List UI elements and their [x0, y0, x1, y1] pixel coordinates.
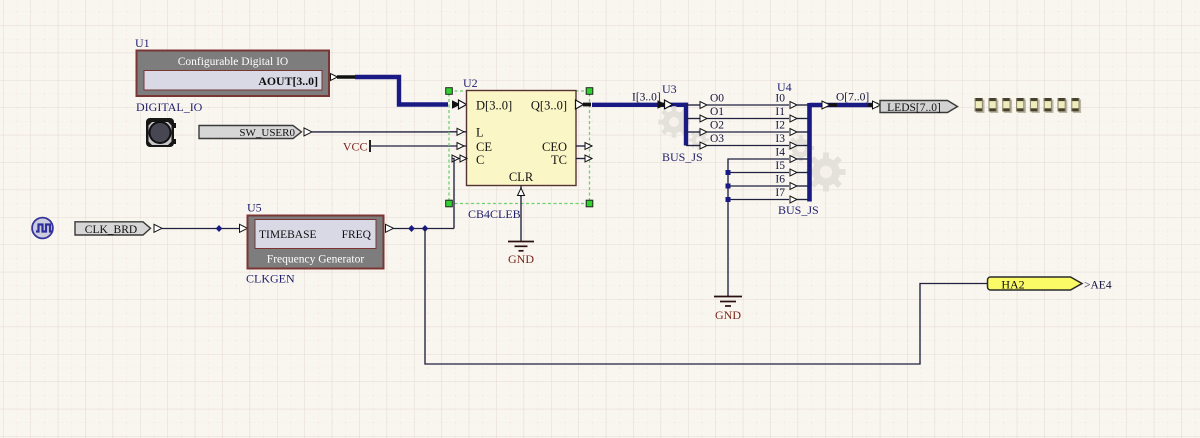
- svg-text:I3: I3: [775, 133, 785, 145]
- svg-text:BUS_JS: BUS_JS: [662, 150, 703, 164]
- svg-text:I4: I4: [775, 147, 785, 159]
- wire I7 branch: [728, 199, 789, 201]
- bus pin arrows at U3 input: [658, 100, 673, 109]
- svg-text:CLR: CLR: [509, 170, 534, 184]
- LED 5: [1030, 98, 1040, 113]
- wire O1 to I1: [707, 118, 789, 120]
- junction I7: [726, 197, 731, 202]
- svg-text:C: C: [476, 153, 484, 167]
- svg-text:FREQ: FREQ: [342, 229, 372, 241]
- wire CLR to GND: [520, 196, 522, 242]
- junction diamond freq b: [422, 225, 429, 232]
- wire O3 to I3: [707, 145, 789, 147]
- svg-text:DIGITAL_IO: DIGITAL_IO: [136, 100, 203, 114]
- connector SW_USER0: [199, 126, 312, 140]
- gear watermark U3 b: [689, 130, 709, 150]
- svg-text:U2: U2: [463, 76, 478, 90]
- gear watermark U4 a: [788, 135, 814, 161]
- LED 2: [989, 98, 999, 113]
- svg-text:I2: I2: [775, 120, 785, 132]
- svg-text:GND: GND: [715, 308, 741, 322]
- connector CLK_BRD: [75, 222, 162, 236]
- connector LEDS[7..0]: [880, 101, 958, 115]
- svg-text:O3: O3: [710, 133, 724, 145]
- pin U5 FREQ output: [386, 224, 394, 232]
- svg-text:I5: I5: [775, 160, 785, 172]
- junction I6: [726, 184, 731, 189]
- svg-text:I6: I6: [775, 174, 785, 186]
- svg-text:U5: U5: [247, 201, 262, 215]
- wire CLK_BRD to U5: [161, 228, 240, 230]
- bus wire Q U2 to U3: [592, 103, 686, 107]
- pin U4 I0: [775, 93, 808, 109]
- wire clock up to U2 C: [452, 159, 454, 229]
- wire O2 to I2: [707, 131, 789, 133]
- svg-text:Frequency Generator: Frequency Generator: [267, 254, 365, 266]
- pin U2 CLR: [518, 186, 525, 198]
- pin U4 I5: [775, 160, 808, 176]
- bus arrows before LEDS: [868, 101, 881, 109]
- svg-text:L: L: [476, 126, 484, 140]
- svg-text:U3: U3: [662, 82, 677, 96]
- pin U2 L: [450, 128, 467, 135]
- wire FREQ to corner: [393, 228, 454, 230]
- bus pin arrows at U2 D input: [453, 100, 467, 109]
- svg-text:CLKGEN: CLKGEN: [246, 272, 295, 286]
- svg-text:BUS_JS: BUS_JS: [778, 203, 819, 217]
- svg-text:SW_USER0: SW_USER0: [239, 127, 295, 139]
- svg-text:>AE4: >AE4: [1084, 280, 1112, 292]
- pin U2 CE: [450, 143, 467, 150]
- LED 8: [1071, 98, 1081, 113]
- svg-text:TIMEBASE: TIMEBASE: [259, 229, 317, 241]
- pin U2 Q output arrows: [576, 100, 592, 109]
- svg-text:I[3..0]: I[3..0]: [632, 92, 661, 104]
- junction I5: [726, 170, 731, 175]
- LED 1: [975, 98, 985, 113]
- pin U4 I6: [775, 174, 808, 190]
- pin U3 O2: [686, 120, 724, 136]
- svg-text:I7: I7: [775, 187, 785, 199]
- wire O0 to I0: [707, 104, 789, 106]
- wire ground net to I4: [728, 159, 789, 297]
- wire I5 branch: [728, 172, 789, 174]
- pin U5 TIMEBASE input: [240, 224, 248, 232]
- svg-text:CB4CLEB: CB4CLEB: [468, 207, 521, 221]
- power VCC: [343, 140, 370, 154]
- svg-text:LEDS[7..0]: LEDS[7..0]: [887, 102, 941, 114]
- svg-text:O2: O2: [710, 120, 724, 132]
- gear watermark U3 a: [658, 106, 690, 138]
- pin U1 AOUT output: [329, 74, 356, 81]
- wire I6 branch: [728, 185, 789, 187]
- svg-text:TC: TC: [551, 153, 567, 167]
- svg-text:I1: I1: [775, 106, 785, 118]
- bus wire O[7..0] U4 to LEDS: [810, 103, 879, 107]
- svg-text:D[3..0]: D[3..0]: [476, 99, 512, 113]
- junction diamond clk: [216, 225, 223, 232]
- svg-text:I0: I0: [775, 93, 785, 105]
- pin U4 I2: [775, 120, 808, 136]
- bus joiner U4 vertical bus: [807, 103, 812, 202]
- pin U2 CEO: [576, 143, 592, 150]
- svg-text:O1: O1: [710, 106, 724, 118]
- pin U4 I4: [775, 147, 808, 163]
- svg-text:AOUT[3..0]: AOUT[3..0]: [258, 74, 318, 88]
- svg-text:O[7..0]: O[7..0]: [836, 92, 869, 104]
- block U1 Configurable Digital IO: [137, 51, 330, 97]
- LED 3: [1002, 98, 1012, 113]
- push button S1: [146, 118, 176, 147]
- pin U3 O3: [686, 133, 724, 149]
- pin U4 I1: [775, 106, 808, 122]
- pin U4 I3: [775, 133, 808, 149]
- gear watermark U4 b: [806, 152, 845, 191]
- bus joiner U3 vertical bus: [684, 105, 686, 146]
- wire SW_USER0 to U2 L: [311, 131, 450, 133]
- pin U3 O0: [686, 93, 724, 109]
- svg-text:Configurable Digital IO: Configurable Digital IO: [178, 56, 289, 68]
- bus wire AOUT U1 to U2: [355, 77, 448, 105]
- ground GND2: [714, 297, 742, 323]
- LED 7: [1058, 98, 1068, 113]
- wire VCC to U2 CE: [370, 145, 450, 147]
- svg-text:GND: GND: [508, 252, 534, 266]
- LED 6: [1044, 98, 1054, 113]
- pin U3 O1: [686, 106, 724, 122]
- svg-text:U1: U1: [135, 36, 150, 50]
- junction diamond freq a: [408, 225, 415, 232]
- svg-text:CLK_BRD: CLK_BRD: [85, 224, 137, 236]
- selection box U2: [446, 88, 593, 207]
- svg-text:VCC: VCC: [343, 140, 368, 154]
- LED 4: [1016, 98, 1026, 113]
- pin U2 TC: [576, 155, 592, 162]
- IC U2 CB4CLEB body: [467, 91, 577, 186]
- pin U2 C clock: [452, 155, 467, 162]
- svg-text:O0: O0: [710, 93, 724, 105]
- clock icon: [32, 218, 53, 239]
- wire bottom run to HA2: [425, 229, 988, 365]
- svg-text:HA2: HA2: [1001, 277, 1024, 291]
- block U5 Frequency Generator: [248, 216, 384, 269]
- connector HA2: [988, 277, 1083, 291]
- ground GND1: [508, 242, 534, 267]
- svg-text:Q[3..0]: Q[3..0]: [531, 99, 567, 113]
- pin U4 I7: [775, 187, 808, 203]
- bus arrows after U4: [822, 101, 837, 109]
